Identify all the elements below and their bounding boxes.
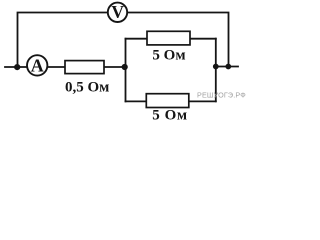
svg-text:РЕШУОГЭ.РФ: РЕШУОГЭ.РФ	[197, 91, 246, 100]
svg-text:A: A	[31, 55, 44, 75]
svg-text:5 Ом: 5 Ом	[152, 108, 188, 122]
svg-text:5 Ом: 5 Ом	[152, 47, 185, 63]
svg-text:V: V	[111, 2, 124, 22]
svg-text:0,5 Ом: 0,5 Ом	[65, 79, 109, 95]
